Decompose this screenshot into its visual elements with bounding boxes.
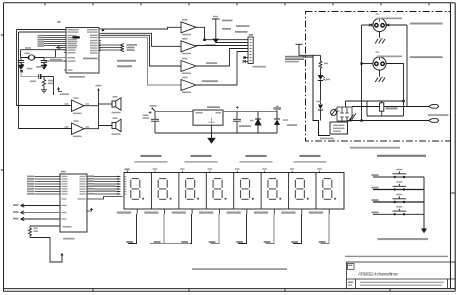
J1 pin7 stub with dot: [245, 57, 249, 59]
switch S2: [372, 187, 379, 189]
border tick marks bottom: [93, 289, 390, 292]
wire T2 out to connector: [196, 45, 248, 48]
control wire row 2 with arrow: [22, 212, 61, 214]
U1 left pin stubs: [64, 30, 66, 71]
U1 left pin name texts: [68, 29, 79, 71]
T2 output label: [205, 44, 216, 46]
C1 C2 value labels: [36, 66, 44, 68]
chevron arrowheads: [121, 44, 125, 52]
wire triac to load loop top: [346, 101, 368, 107]
T3 output label: [206, 62, 217, 64]
node dot: [203, 39, 206, 41]
wire to speaker LS2: [84, 126, 112, 129]
note text under switches: [378, 238, 429, 240]
two gray note texts below: [117, 60, 136, 62]
junction arrow mark: [102, 29, 108, 31]
wire reset right: [41, 76, 54, 78]
snubber capacitor plates: [340, 113, 348, 117]
antenna AE1: [212, 19, 220, 43]
wire U3A output to node: [84, 105, 99, 107]
wire mains into box: [299, 54, 321, 57]
wire R9 bottom loop: [30, 238, 62, 263]
node dots bottom network: [360, 119, 362, 121]
J1 refdes: [249, 34, 254, 36]
U1 refdes label: [57, 21, 61, 23]
7-segment display DS1 (8 digits): [124, 173, 344, 210]
resistor R10: [319, 55, 322, 70]
op-amp T2: [181, 41, 196, 52]
wire with arrow near U1 lower pin: [59, 88, 63, 92]
label lower: [60, 94, 69, 96]
J1 part label: [253, 66, 267, 68]
arrowhead on ground net wire: [61, 253, 64, 256]
E2 label: [376, 51, 380, 52]
U1 bottom label: [69, 76, 85, 78]
long gray rule bottom middle: [192, 268, 287, 270]
digit 8 common pin wire: [328, 209, 330, 214]
AC load lamp E1: [373, 18, 386, 31]
arrowhead up: [57, 87, 60, 90]
op-amp T1: [181, 22, 196, 33]
LED D4: [318, 75, 323, 80]
U1 right pin stubs: [99, 29, 101, 51]
wire gray long under displays: [150, 243, 190, 245]
digit 6 common pin wire: [273, 209, 275, 214]
wire left load rail: [361, 25, 363, 121]
digit 5 top pin: [236, 171, 238, 173]
power flag VCC on output: [276, 110, 278, 112]
speaker LS2: [112, 119, 121, 131]
U1 highlighted pin label: [73, 36, 80, 38]
transistor Q5: [331, 110, 337, 116]
U3B labels: [74, 120, 79, 122]
wires labels to U2 inputs: [35, 177, 60, 195]
wire E1 left to rail: [362, 24, 373, 26]
U3A labels: [74, 97, 79, 99]
digit 3 common pin wire: [191, 209, 193, 214]
label near pin: [50, 59, 62, 61]
ground arrow below rail: [421, 229, 427, 234]
load loop wires: [367, 101, 404, 116]
load description texts right: [410, 23, 443, 25]
op-amp buffer U3B: [72, 123, 85, 134]
U2 right pin names: [78, 176, 86, 200]
wire cap top to U1 pin: [44, 60, 66, 62]
op-amp T3: [181, 61, 196, 72]
node junction dot reset: [20, 70, 23, 72]
capacitor C5 at regulator output: [233, 112, 241, 134]
digit 1 segments: [131, 179, 140, 200]
title block small cell texts: [348, 265, 352, 266]
digit 5 common pin wire: [246, 209, 248, 214]
wire T1 out down to bus: [196, 27, 248, 39]
earth ground below R1: [41, 89, 47, 93]
control wire row 3 with arrow: [22, 218, 61, 220]
digit 4 top pin: [209, 171, 211, 173]
output terminal flag 2: [429, 119, 439, 123]
optocoupler module U5: [330, 122, 348, 134]
capacitor C3 polarized: [38, 74, 40, 79]
ground arrow below C1: [18, 64, 24, 70]
wire reset left: [21, 71, 39, 77]
power input arrow: [152, 108, 155, 111]
digit 7 common pin wire: [301, 209, 303, 214]
wire T4 out up to connector: [196, 52, 248, 86]
E1 label: [376, 13, 380, 14]
wire output line1 to terminal: [352, 106, 429, 108]
wire E2 right down: [386, 64, 404, 102]
ground arrow power: [208, 133, 216, 144]
wire left rail in dash box: [313, 55, 330, 135]
wire power in to regulator: [155, 111, 193, 113]
title block: [347, 262, 456, 289]
U5 label below: [320, 138, 334, 140]
node dot E2 left: [360, 62, 362, 64]
snubber network wires: [337, 107, 352, 121]
net label bundle P1 texts: [38, 35, 45, 47]
digit 4 common pin wire: [219, 209, 221, 214]
regulator ground stem: [211, 125, 213, 138]
resistor R11 in loop: [380, 103, 384, 111]
svg-text:AT89S52 4-channel timer: AT89S52 4-channel timer: [358, 271, 398, 276]
digit 7 segments: [295, 179, 304, 200]
driver U2 ULN2803: [60, 174, 87, 232]
crystal label: [25, 47, 31, 49]
border tick mark right: [451, 192, 456, 194]
dash-dot enclosure box: [306, 12, 451, 142]
U1 right pin name texts: [87, 29, 98, 54]
capacitor C1: [18, 58, 24, 65]
MCU U1 AT89S52: [66, 28, 99, 74]
digit 1 common pin wire: [136, 209, 138, 214]
capacitor C4 at regulator input: [151, 112, 159, 134]
switch S3: [372, 199, 379, 201]
mains input antenna symbol: [296, 44, 303, 54]
wire rail 2 top: [19, 31, 67, 33]
arrowhead: [57, 46, 61, 49]
crystal X1: [21, 55, 56, 60]
arrowheads into display pins: [118, 176, 121, 195]
mid-wire net labels: [88, 175, 116, 194]
wire E2 left: [362, 63, 374, 65]
node VCC arrow on rail top: [97, 88, 100, 90]
title block top gray rule: [345, 256, 448, 257]
digit 6 segments: [268, 179, 277, 200]
connector J1 header: [248, 37, 253, 64]
wire long vertical from reset to lower-left area: [53, 77, 55, 96]
U2 left pin names: [62, 176, 68, 220]
wire with arrow into U1 pin: [57, 47, 64, 49]
op-amp T4: [181, 80, 196, 91]
switch common rail: [423, 177, 425, 229]
wire E1 right to rail: [386, 25, 407, 107]
title block revision rules: [360, 282, 444, 283]
digit 4 segments: [213, 179, 222, 200]
U2 part number below: [63, 238, 75, 240]
DS1 left pin numbers: [125, 176, 127, 195]
right pin net labels: [127, 44, 138, 46]
digit 8 segments: [323, 179, 332, 200]
net labels above connector: [222, 20, 233, 22]
wire left vertical rail to buffer A: [17, 30, 72, 106]
digit 2 common pin wire: [164, 209, 166, 214]
LS2 labels: [113, 118, 118, 120]
diode D2 to rail: [274, 112, 280, 134]
diode D5: [318, 105, 323, 110]
digit 5 segments: [241, 179, 250, 200]
wire R9 top to U2: [30, 225, 60, 227]
digit 8 top pin: [319, 171, 321, 173]
output terminal flag 1: [429, 105, 439, 109]
border tick marks left: [1, 35, 4, 170]
wire U1 to T1 with arrow mark: [101, 27, 181, 29]
digit 3 top pin: [181, 171, 183, 173]
input net labels left of U2: [27, 176, 35, 195]
chassis ground under E2: [379, 70, 381, 76]
digit 2 segments: [158, 179, 167, 200]
wire vertical speaker rail: [98, 89, 100, 126]
switch S4: [372, 212, 379, 214]
wire output line2 to terminal: [348, 120, 429, 122]
mains input text stack: [285, 56, 304, 58]
DS1 refdes: [125, 169, 130, 171]
wire U1 to T3: [101, 35, 181, 66]
antenna junction triangle: [213, 39, 219, 44]
wire U1 to T2: [101, 33, 181, 46]
digit 3 segments: [186, 179, 195, 200]
switch S1: [372, 174, 379, 176]
wire T3 out up to connector: [196, 49, 248, 67]
ground arrow below C2: [41, 64, 47, 70]
U2 inner label: [63, 226, 72, 228]
op-amp buffer U3A: [72, 100, 85, 111]
triac arrows: [350, 114, 357, 121]
note text below dash box: [350, 147, 400, 149]
wire bundle P1 to U1: [44, 36, 64, 46]
regulator U4 7805: [193, 110, 223, 125]
U1 right short pin wires with arrows: [99, 45, 122, 50]
capacitor C2: [41, 58, 47, 65]
AC load lamp E2: [373, 57, 386, 70]
resistor R1 reset pulldown: [42, 77, 45, 89]
C3 label: [30, 81, 36, 83]
U2 output wires to display: [87, 177, 121, 195]
J1 pin marks: [250, 39, 252, 61]
wire to speaker LS1: [99, 103, 113, 105]
border tick marks top: [45, 3, 429, 6]
R1 labels: [48, 80, 53, 82]
wire VCC rail top: [17, 29, 67, 31]
ground rail under regulator: [155, 132, 277, 134]
digit 2 top pin: [154, 171, 156, 173]
J1 pin8 arrow mark: [243, 60, 249, 62]
wire U2 to display 9th: [87, 197, 123, 200]
crystal X1 circuit top wire: [21, 50, 67, 58]
digit 1 top pin: [127, 171, 129, 173]
wire antenna to connector: [216, 42, 248, 44]
wire crystal row into U1: [44, 57, 66, 59]
wire left vertical rail to buffer B: [19, 32, 72, 129]
chassis ground under E1: [379, 32, 381, 38]
net name texts above displays: [141, 155, 162, 157]
wire regulator output: [223, 111, 277, 113]
speaker LS1: [112, 98, 121, 110]
resistor R9: [29, 226, 32, 238]
LS1 labels: [113, 96, 118, 98]
digit 6 top pin: [264, 171, 266, 173]
digit 7 top pin: [291, 171, 293, 173]
diode D1 to rail: [255, 112, 261, 134]
terminal note text: [428, 114, 449, 116]
T4 output label: [202, 80, 218, 82]
wire stub with up arrow below U2: [87, 209, 92, 212]
wire U1 to T4: [101, 37, 181, 85]
control wire row 1 with arrow: [22, 205, 61, 207]
U1 part number text: [83, 58, 98, 60]
